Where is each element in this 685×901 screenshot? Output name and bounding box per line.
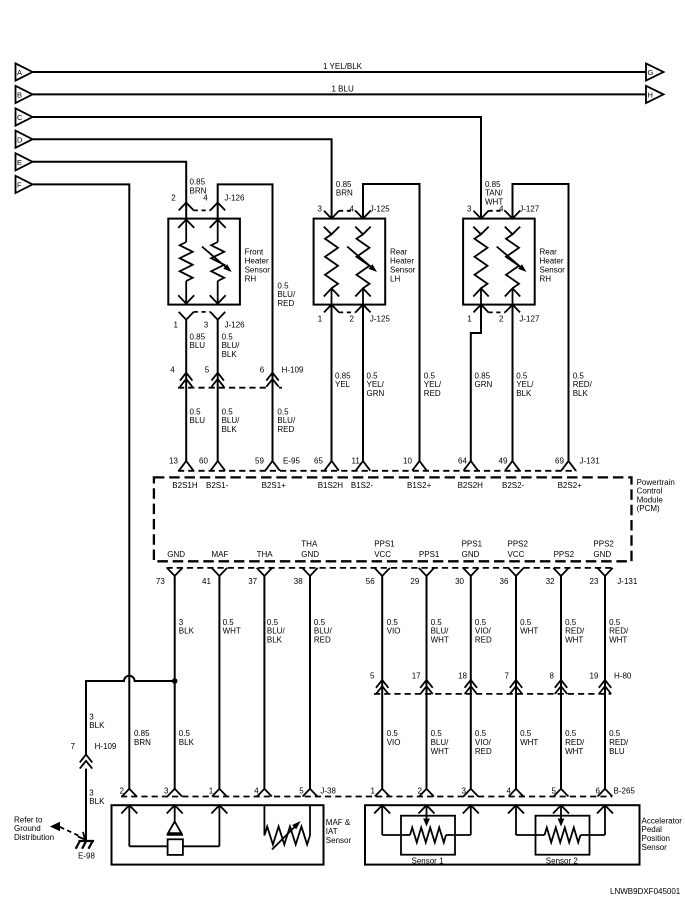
svg-text:PPS1: PPS1 (374, 540, 395, 549)
svg-text:PPS2: PPS2 (554, 550, 575, 559)
svg-text:0.5: 0.5 (222, 332, 234, 341)
wire D to Rear Heater Sensor LH pin 3 (33, 139, 332, 218)
PCM top pin-name labels (172, 481, 582, 490)
svg-text:1: 1 (174, 320, 179, 329)
heater resistor (left element) (178, 220, 194, 304)
svg-text:TAN/: TAN/ (485, 189, 503, 198)
svg-text:Pedal: Pedal (642, 825, 663, 834)
label 0.5 BLU/ WHT (431, 618, 450, 645)
svg-text:BLU/: BLU/ (314, 627, 333, 636)
ground branch wire to E-98 (3 BLK) with hop over wire F (86, 676, 175, 756)
svg-text:RED: RED (475, 747, 492, 756)
svg-text:VIO/: VIO/ (475, 627, 492, 636)
svg-text:0.85: 0.85 (336, 180, 352, 189)
svg-text:3: 3 (204, 320, 209, 329)
svg-text:RH: RH (540, 275, 552, 284)
wire PCM 73 GND (3 BLK / 0.5 BLK) to MAF sensor pin 3 (174, 576, 176, 789)
svg-text:H: H (648, 91, 653, 100)
wire PCM PPS1 VCC to APP sensor (381, 576, 383, 789)
svg-text:0.5: 0.5 (431, 618, 443, 627)
svg-text:WHT: WHT (609, 635, 627, 644)
svg-text:41: 41 (202, 577, 211, 586)
svg-text:C: C (17, 113, 23, 122)
connector arrow F (16, 176, 33, 193)
svg-text:BLK: BLK (179, 627, 195, 636)
svg-text:0.5: 0.5 (387, 729, 399, 738)
svg-text:49: 49 (499, 457, 508, 466)
svg-text:LH: LH (390, 275, 400, 284)
label Front Heater Sensor RH (245, 248, 271, 284)
label 0.85 BRN (wire F near MAF sensor) (134, 729, 151, 747)
wire A (1 YEL/BLK) (33, 71, 647, 73)
wire PCM PPS2 VCC to APP sensor (515, 576, 517, 789)
label 0.5 BLK (179, 729, 195, 747)
svg-text:2: 2 (499, 315, 504, 324)
Rear RH sensor box (463, 219, 535, 305)
MAF hot-wire element (triangle and square) (121, 805, 227, 855)
svg-text:38: 38 (294, 577, 303, 586)
svg-text:BLU: BLU (609, 747, 625, 756)
wire block3 pin4 to PCM pin 69 (0.5 RED/BLK) (513, 184, 569, 461)
svg-text:59: 59 (255, 457, 264, 466)
svg-text:WHT: WHT (485, 197, 503, 206)
svg-text:BLK: BLK (89, 721, 105, 730)
connector arrow B (16, 86, 33, 103)
svg-text:Sensor: Sensor (326, 836, 352, 845)
svg-text:3: 3 (318, 205, 323, 214)
svg-text:H-80: H-80 (614, 671, 632, 680)
svg-text:B2S2H: B2S2H (458, 481, 484, 490)
svg-text:0.85: 0.85 (190, 178, 206, 187)
svg-text:56: 56 (366, 577, 375, 586)
svg-text:0.5: 0.5 (565, 618, 577, 627)
connector row E-95 (left) and J-131 (right) above PCM (169, 457, 600, 471)
svg-text:Sensor: Sensor (390, 266, 416, 275)
svg-text:7: 7 (505, 671, 510, 680)
label 0.5 BLU/RED (right of block1) (277, 281, 296, 308)
svg-text:8: 8 (550, 671, 555, 680)
svg-text:3: 3 (179, 618, 184, 627)
wire PCM 41 MAF (0.5 WHT) to MAF sensor pin 1 (218, 576, 220, 789)
svg-text:BRN: BRN (134, 738, 151, 747)
svg-text:BLU/: BLU/ (431, 627, 450, 636)
svg-text:0.85: 0.85 (485, 180, 501, 189)
ground symbol E-98 (76, 841, 94, 849)
svg-text:GND: GND (167, 550, 185, 559)
svg-text:WHT: WHT (565, 635, 583, 644)
svg-text:J-131: J-131 (617, 577, 638, 586)
svg-text:Sensor: Sensor (245, 266, 271, 275)
svg-text:0.5: 0.5 (277, 281, 289, 290)
Front RH sensor box (168, 219, 240, 305)
svg-text:PPS2: PPS2 (508, 540, 529, 549)
svg-text:5: 5 (370, 671, 375, 680)
svg-text:5: 5 (299, 786, 304, 795)
svg-text:1: 1 (209, 786, 214, 795)
svg-text:23: 23 (590, 577, 599, 586)
svg-text:Sensor: Sensor (642, 843, 668, 852)
svg-text:Heater: Heater (390, 257, 414, 266)
label 0.5 VIO (387, 729, 401, 747)
wire block1 pin3 to PCM pin 60 (0.5 BLU/BLK) (217, 320, 219, 461)
svg-text:Rear: Rear (390, 248, 408, 257)
svg-text:THA: THA (301, 540, 318, 549)
wire PCM PPS1 GND to APP sensor (470, 576, 472, 789)
wire PCM 38 THA GND (0.5 BLU/RED) to MAF sensor pin 5 (309, 576, 311, 789)
label 0.5 VIO (387, 618, 401, 636)
svg-text:J-131: J-131 (580, 457, 601, 466)
svg-text:19: 19 (590, 671, 599, 680)
svg-text:GND: GND (593, 550, 611, 559)
svg-text:VCC: VCC (508, 550, 525, 559)
connector J-125 (top) (318, 205, 391, 219)
connector row J-131 below PCM (156, 568, 638, 586)
label 0.5 BLU/RED (277, 407, 296, 434)
svg-text:D: D (17, 135, 23, 144)
thermistor (right element with arrow) (497, 227, 527, 305)
svg-text:GND: GND (462, 550, 480, 559)
svg-text:0.5: 0.5 (573, 371, 585, 380)
svg-text:WHT: WHT (520, 627, 538, 636)
svg-text:0.85: 0.85 (475, 371, 491, 380)
svg-text:0.5: 0.5 (387, 618, 399, 627)
svg-text:G: G (648, 68, 654, 77)
svg-text:J-126: J-126 (224, 193, 245, 202)
diagram id LNWB9DXF045001 (610, 887, 681, 896)
svg-text:BLU/: BLU/ (431, 738, 450, 747)
svg-text:J-126: J-126 (225, 320, 246, 329)
svg-text:13: 13 (169, 457, 178, 466)
svg-text:1: 1 (318, 315, 323, 324)
svg-text:E-98: E-98 (78, 852, 95, 861)
svg-text:0.85: 0.85 (335, 371, 351, 380)
svg-text:B2S1H: B2S1H (172, 481, 198, 490)
svg-text:Front: Front (245, 248, 264, 257)
svg-text:YEL: YEL (335, 380, 351, 389)
label 0.5 RED/ WHT (565, 618, 585, 645)
svg-text:PPS1: PPS1 (462, 540, 483, 549)
svg-text:0.5: 0.5 (424, 371, 436, 380)
label 0.5 BLU (190, 407, 206, 425)
svg-text:BLU/: BLU/ (267, 627, 286, 636)
wire block1 pin4 to PCM pin 59 (0.5 BLU/RED) (218, 184, 273, 461)
svg-text:J-125: J-125 (370, 205, 391, 214)
svg-text:VIO: VIO (387, 738, 401, 747)
svg-text:RED: RED (277, 425, 294, 434)
svg-text:WHT: WHT (520, 738, 538, 747)
svg-text:WHT: WHT (223, 627, 241, 636)
svg-text:B-265: B-265 (614, 786, 636, 795)
svg-text:RH: RH (245, 275, 257, 284)
svg-text:RED: RED (424, 389, 441, 398)
connector arrow A (16, 63, 33, 80)
svg-text:IAT: IAT (326, 827, 338, 836)
label 0.5 BLU/BLK (222, 407, 241, 434)
label 0.85 BRN (block1 pin2 wire) (190, 178, 207, 196)
svg-text:B2S2-: B2S2- (502, 481, 525, 490)
svg-text:64: 64 (458, 457, 467, 466)
refer to ground distribution note with dashed arrow (14, 815, 85, 842)
svg-text:BLU: BLU (190, 416, 206, 425)
svg-text:6: 6 (260, 365, 265, 374)
thermistor (right element with arrow) (202, 220, 232, 304)
svg-text:BLU/: BLU/ (222, 416, 241, 425)
label 0.85 GRN (475, 371, 493, 389)
svg-text:Control: Control (637, 487, 663, 496)
svg-text:0.85: 0.85 (190, 332, 206, 341)
svg-text:Sensor 1: Sensor 1 (412, 856, 445, 865)
svg-text:0.5: 0.5 (520, 618, 532, 627)
svg-text:BLU/: BLU/ (277, 416, 296, 425)
label 0.5 YEL/GRN (367, 371, 385, 398)
label MAF & IAT Sensor (326, 818, 352, 845)
label 0.85 BRN (block2 pin3 wire) (336, 180, 353, 198)
connector arrow E (16, 153, 33, 170)
svg-text:B2S1-: B2S1- (206, 481, 229, 490)
wire block3 pin1 to PCM pin 64 (0.85 GRN) with jog (471, 305, 481, 461)
svg-text:B2S1+: B2S1+ (262, 481, 287, 490)
wire PCM PPS1 to APP sensor (426, 576, 428, 789)
svg-text:6: 6 (596, 786, 601, 795)
label 0.5 RED/ BLU (609, 729, 629, 756)
svg-text:F: F (17, 181, 22, 190)
svg-text:B2S2+: B2S2+ (558, 481, 583, 490)
label Powertrain Control Module (PCM) (637, 478, 675, 513)
svg-text:30: 30 (455, 577, 464, 586)
svg-text:WHT: WHT (431, 747, 449, 756)
svg-text:4: 4 (254, 786, 259, 795)
svg-text:4: 4 (170, 365, 175, 374)
svg-text:5: 5 (552, 786, 557, 795)
svg-text:WHT: WHT (431, 635, 449, 644)
label 0.5 BLU/BLK (267, 618, 286, 645)
svg-text:5: 5 (205, 365, 210, 374)
svg-text:0.5: 0.5 (475, 729, 487, 738)
svg-text:0.5: 0.5 (475, 618, 487, 627)
svg-text:3: 3 (467, 205, 472, 214)
svg-text:2: 2 (120, 786, 125, 795)
svg-text:2: 2 (171, 193, 176, 202)
wire F (0.85 BRN) down to MAF sensor pin 2 (33, 184, 130, 788)
svg-text:BLU/: BLU/ (222, 341, 241, 350)
label 0.85 TAN/WHT (block3 pin3 wire) (485, 180, 503, 207)
svg-text:0.5: 0.5 (222, 407, 234, 416)
svg-text:Heater: Heater (540, 257, 564, 266)
svg-text:1: 1 (467, 315, 472, 324)
svg-text:Sensor 2: Sensor 2 (546, 856, 579, 865)
svg-text:36: 36 (500, 577, 509, 586)
label 0.5 YEL/RED (424, 371, 442, 398)
svg-text:0.5: 0.5 (267, 618, 279, 627)
label 0.85 YEL (335, 371, 351, 389)
svg-text:18: 18 (458, 671, 467, 680)
svg-text:PPS1: PPS1 (419, 550, 440, 559)
svg-text:65: 65 (314, 457, 323, 466)
label 3 BLK (89, 712, 105, 730)
APP sensor 2 potentiometer (508, 805, 613, 865)
heater resistor (left element) (473, 227, 488, 305)
label 0.5 VIO/ RED (475, 729, 492, 756)
svg-text:RED/: RED/ (609, 627, 629, 636)
svg-text:YEL/: YEL/ (516, 380, 534, 389)
svg-text:1: 1 (371, 786, 376, 795)
svg-text:2: 2 (418, 786, 423, 795)
connector J-126 (top) (171, 193, 245, 210)
svg-text:3: 3 (164, 786, 169, 795)
label 0.5 BLU/BLK (222, 332, 241, 359)
svg-text:Heater: Heater (245, 257, 269, 266)
svg-text:YEL/: YEL/ (424, 380, 442, 389)
connector arrow D (16, 131, 33, 148)
svg-text:0.5: 0.5 (516, 371, 528, 380)
svg-text:29: 29 (410, 577, 419, 586)
svg-text:BRN: BRN (190, 187, 207, 196)
svg-text:60: 60 (199, 457, 208, 466)
label Accelerator Pedal Position Sensor (642, 816, 683, 851)
svg-text:Distribution: Distribution (14, 833, 54, 842)
svg-text:RED: RED (314, 635, 331, 644)
svg-text:0.5: 0.5 (609, 729, 621, 738)
inline connector H-109 pins 4 5 6 (170, 365, 304, 387)
svg-text:PPS2: PPS2 (593, 540, 614, 549)
label 0.5 BLU/RED (314, 618, 333, 645)
label 0.5 WHT (223, 618, 241, 636)
label 3 BLK (89, 788, 105, 806)
svg-text:RED/: RED/ (609, 738, 629, 747)
svg-text:E-95: E-95 (283, 457, 300, 466)
svg-text:H-109: H-109 (95, 742, 117, 751)
svg-text:RED/: RED/ (565, 627, 585, 636)
svg-text:Rear: Rear (540, 248, 558, 257)
svg-text:B1S2-: B1S2- (351, 481, 374, 490)
svg-text:GND: GND (301, 550, 319, 559)
svg-text:37: 37 (248, 577, 257, 586)
svg-text:B1S2H: B1S2H (318, 481, 344, 490)
svg-text:0.5: 0.5 (223, 618, 235, 627)
label 0.5 BLU/ WHT (431, 729, 450, 756)
connector row J-38 and B-265 (120, 786, 636, 796)
inline connector H-109 pin 7 (71, 742, 117, 769)
svg-text:VCC: VCC (374, 550, 391, 559)
svg-text:J-125: J-125 (370, 315, 391, 324)
svg-text:VIO: VIO (387, 627, 401, 636)
svg-text:(PCM): (PCM) (637, 504, 660, 513)
svg-text:BRN: BRN (336, 189, 353, 198)
wire B (1 BLU) (33, 93, 647, 95)
wire block3 pin2 to PCM pin 49 (0.5 YEL/BLK) (512, 305, 514, 461)
label 0.5 WHT (520, 618, 538, 636)
svg-text:MAF &: MAF & (326, 818, 351, 827)
wire C to Rear Heater Sensor RH pin 3 (33, 117, 482, 219)
svg-text:32: 32 (546, 577, 555, 586)
svg-text:0.5: 0.5 (190, 407, 202, 416)
svg-text:RED: RED (277, 299, 294, 308)
label 0.85 BLU (190, 332, 206, 350)
svg-text:RED/: RED/ (565, 738, 585, 747)
svg-text:BLK: BLK (222, 350, 238, 359)
wire PCM PPS2 to APP sensor (560, 576, 562, 789)
PCM bottom pin-name labels (167, 540, 614, 560)
svg-text:BLK: BLK (573, 389, 589, 398)
wire below H-109 pin7 (3 BLK) (85, 769, 87, 841)
label Rear Heater Sensor RH (540, 248, 566, 284)
svg-text:69: 69 (555, 457, 564, 466)
svg-text:BLK: BLK (89, 797, 105, 806)
wire E to Front Heater Sensor RH pin 2 (33, 162, 187, 219)
wire PCM PPS2 GND to APP sensor (604, 576, 606, 789)
connector arrow G (646, 63, 664, 80)
label 0.5 RED/ WHT (609, 618, 629, 645)
svg-text:Position: Position (642, 834, 670, 843)
connector J-127 (top) (467, 205, 540, 219)
svg-text:LNWB9DXF045001: LNWB9DXF045001 (610, 887, 681, 896)
svg-text:GRN: GRN (475, 380, 493, 389)
svg-text:7: 7 (71, 742, 76, 751)
wire block2 pin4 to PCM pin 10 (0.5 YEL/RED) (363, 184, 420, 461)
label Rear Heater Sensor LH (390, 248, 416, 284)
connector J-125 (bottom) (318, 305, 391, 324)
APP sensor 1 potentiometer (374, 805, 479, 865)
svg-text:0.5: 0.5 (520, 729, 532, 738)
label 0.5 YEL/BLK (516, 371, 534, 398)
svg-text:BLU: BLU (190, 341, 206, 350)
svg-text:Powertrain: Powertrain (637, 478, 675, 487)
svg-text:H-109: H-109 (282, 365, 304, 374)
svg-text:10: 10 (403, 457, 412, 466)
svg-text:0.5: 0.5 (367, 371, 379, 380)
connector arrow C (16, 108, 33, 125)
svg-text:1 BLU: 1 BLU (332, 84, 354, 93)
svg-text:0.5: 0.5 (179, 729, 191, 738)
svg-text:Sensor: Sensor (540, 266, 566, 275)
inline connector H-80 (370, 671, 632, 694)
svg-text:3: 3 (89, 712, 94, 721)
Rear LH sensor box (314, 219, 386, 305)
label 1 YEL/BLK (323, 62, 363, 71)
svg-text:J-127: J-127 (519, 205, 540, 214)
label E-98 (78, 852, 95, 861)
wire block2 pin2 to PCM pin 11 (0.5 YEL/GRN) (362, 305, 364, 461)
svg-text:E: E (17, 158, 22, 167)
svg-text:3: 3 (89, 788, 94, 797)
svg-text:0.5: 0.5 (314, 618, 326, 627)
accelerator pedal position sensor box (365, 805, 640, 864)
svg-text:11: 11 (352, 457, 361, 466)
label 0.5 RED/ WHT (565, 729, 585, 756)
label 0.5 RED/BLK (573, 371, 593, 398)
wire block1 pin1 to PCM pin 13 (0.85 BLU / 0.5 BLU) (185, 320, 187, 461)
MAF and IAT sensor box (112, 805, 324, 864)
svg-text:Ground: Ground (14, 824, 41, 833)
svg-text:17: 17 (412, 671, 421, 680)
wire PCM 37 THA (0.5 BLU/BLK) to MAF sensor pin 4 (263, 576, 265, 789)
svg-text:J-127: J-127 (519, 315, 540, 324)
svg-text:BLK: BLK (516, 389, 532, 398)
svg-text:RED: RED (475, 635, 492, 644)
label 3 BLK (179, 618, 195, 636)
svg-text:Module: Module (637, 495, 664, 504)
IAT thermistor element (264, 805, 310, 849)
svg-text:0.5: 0.5 (277, 407, 289, 416)
svg-text:WHT: WHT (565, 747, 583, 756)
svg-text:RED/: RED/ (573, 380, 593, 389)
svg-text:GRN: GRN (367, 389, 385, 398)
heater resistor (left element) (324, 227, 339, 305)
svg-text:Refer to: Refer to (14, 815, 43, 824)
svg-text:0.5: 0.5 (609, 618, 621, 627)
svg-text:B1S2+: B1S2+ (407, 481, 432, 490)
svg-text:0.5: 0.5 (431, 729, 443, 738)
